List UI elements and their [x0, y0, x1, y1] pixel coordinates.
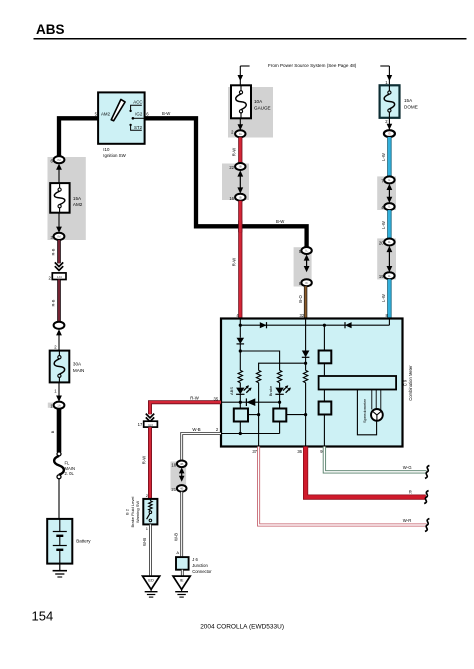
svg-text:2. 0L: 2. 0L — [65, 471, 75, 476]
mating arrows 7-4 — [387, 184, 393, 190]
driver block Q1 — [234, 409, 248, 422]
svg-text:32: 32 — [300, 313, 305, 318]
svg-text:15A: 15A — [73, 196, 82, 201]
svg-text:GAUGE: GAUGE — [254, 105, 271, 110]
meter pin9 column — [323, 325, 325, 446]
wire R-W crossing over B-W — [238, 221, 242, 233]
junction connector J6 — [176, 557, 189, 570]
connector IB pin 22 — [235, 163, 245, 170]
connector IB pin 16 — [235, 194, 245, 201]
svg-text:R-W: R-W — [142, 456, 147, 464]
wire B (ignition AM2 to fuse AM2) — [59, 118, 98, 156]
power feed arrow (GAUGE) — [240, 65, 249, 67]
svg-text:R-W: R-W — [232, 148, 237, 156]
mating arrows 5-8 — [304, 254, 310, 260]
svg-text:4B: 4B — [180, 462, 184, 466]
connector shading 7/4 — [377, 176, 396, 210]
svg-text:W-G: W-G — [403, 465, 412, 470]
svg-text:R-W: R-W — [190, 396, 200, 401]
ground IE — [173, 576, 190, 589]
svg-text:From Power Source System (See: From Power Source System (See Page 48) — [268, 63, 357, 68]
meter top rail — [240, 324, 389, 326]
combination meter C9 box — [221, 319, 403, 447]
svg-text:ABS: ABS — [229, 387, 234, 395]
wire fuse GAUGE to connector — [239, 118, 241, 130]
svg-text:10A: 10A — [254, 99, 263, 104]
svg-text:1J4: 1J4 — [57, 275, 62, 279]
svg-text:Speedometer: Speedometer — [362, 398, 367, 423]
svg-text:IB: IB — [239, 165, 242, 169]
svg-text:37: 37 — [252, 449, 257, 454]
svg-text:AM2: AM2 — [101, 111, 111, 116]
svg-text:DOME: DOME — [404, 104, 418, 109]
fuse F 30A MAIN — [50, 351, 70, 383]
svg-text:W-B: W-B — [142, 538, 147, 546]
connector 4B pin 21 — [177, 485, 187, 492]
svg-text:L-W: L-W — [381, 294, 386, 302]
ignition switch wiper — [111, 99, 125, 120]
svg-text:Ignition SW: Ignition SW — [103, 153, 126, 158]
svg-text:L-W: L-W — [381, 153, 386, 161]
svg-text:4B: 4B — [180, 487, 184, 491]
svg-text:B 2: B 2 — [124, 508, 129, 515]
connector IM pin 6 — [54, 156, 65, 163]
svg-text:30A: 30A — [73, 362, 82, 367]
connector IL pin 5 — [301, 247, 311, 254]
connector IK pin 8 — [301, 279, 311, 286]
wire DOME fuse to connector — [388, 118, 390, 130]
connector shading 22/16 — [222, 164, 249, 201]
svg-text:Connector: Connector — [192, 569, 212, 574]
svg-text:Combination Meter: Combination Meter — [408, 365, 413, 401]
svg-text:1A: 1A — [57, 403, 61, 407]
wire R-W connector to switch — [148, 427, 152, 499]
svg-text:18: 18 — [171, 462, 176, 467]
wire R-W meter pin35 to brake switch — [150, 402, 221, 414]
svg-text:MAIN: MAIN — [65, 466, 75, 471]
terminal IG2 — [132, 117, 135, 120]
wire W-B 21 to junction connector — [180, 492, 183, 557]
LED Brake — [279, 383, 281, 388]
speedometer gauge symbol — [371, 409, 383, 421]
connector 4B pin 18 — [177, 461, 187, 468]
wire B-O connector 8 to meter pin 32 — [304, 286, 307, 318]
wire R-W 16 to meter pin 4 — [238, 201, 242, 319]
svg-text:IG: IG — [239, 132, 242, 136]
svg-text:R-B: R-B — [51, 299, 56, 306]
svg-text:R-B: R-B — [51, 248, 56, 255]
power feed arrow (DOME) — [380, 65, 389, 67]
wire B-W (ignition IG2 to connector 5) — [145, 118, 307, 247]
meter rail y363 — [259, 363, 306, 370]
header rule — [34, 38, 467, 40]
connector IL pin 7 — [384, 176, 394, 183]
svg-text:AM2: AM2 — [73, 202, 83, 207]
mating arrow into IM6 — [56, 164, 62, 170]
break symbol W-G — [425, 465, 429, 478]
block B1 — [319, 351, 332, 364]
meter pin35 line with diode D4 — [221, 401, 280, 403]
svg-text:IG2: IG2 — [135, 112, 143, 117]
wire L-W 4 to 20 — [387, 210, 391, 239]
break symbol R — [424, 491, 428, 504]
wire L-W to connector 7 — [387, 137, 391, 177]
wire L-W 19 to meter pin 8 — [387, 279, 391, 318]
fuse F 15A AM2 — [50, 183, 69, 213]
connector shading 20/19 — [377, 238, 396, 279]
mating arrow into MAIN connector — [56, 329, 62, 335]
svg-text:MAIN: MAIN — [73, 368, 84, 373]
inline connector chevrons (1J4) — [55, 262, 63, 266]
svg-text:Battery: Battery — [76, 539, 91, 544]
wire MAIN fuse to 1A connector — [58, 382, 60, 398]
speedometer feed lines — [371, 390, 373, 410]
brake fluid level warning switch B2 box — [143, 499, 157, 525]
wire W-B junction to ground — [181, 570, 184, 576]
battery cells — [59, 519, 61, 532]
svg-text:A: A — [176, 550, 179, 555]
svg-text:ABS: ABS — [36, 22, 65, 37]
meter pin32/36 column — [305, 319, 307, 351]
svg-text:Warning SW: Warning SW — [135, 501, 140, 524]
svg-text:R-W: R-W — [232, 258, 237, 266]
meter bottom rail — [221, 433, 280, 435]
svg-text:B-O: B-O — [298, 295, 303, 303]
svg-text:B-W: B-W — [162, 111, 171, 116]
wire W-B switch to ground — [149, 524, 152, 576]
svg-text:15A: 15A — [404, 98, 413, 103]
speedometer plate — [319, 376, 397, 390]
svg-text:ED: ED — [148, 578, 154, 583]
switch internals — [149, 499, 151, 501]
meter pin4 column — [239, 319, 241, 338]
junction block shading (GAUGE) — [228, 87, 273, 138]
wire fuse AM2 to IM3 — [58, 213, 60, 230]
driver block Q2 — [273, 409, 286, 422]
svg-text:4L: 4L — [388, 274, 392, 278]
connector 4L pin 19 — [384, 272, 394, 279]
mating arrows 18-21 — [179, 467, 185, 473]
wire W-G (pin9) — [324, 447, 426, 472]
svg-text:36: 36 — [297, 449, 302, 454]
resistor R2 (Brake) — [277, 370, 281, 382]
svg-text:J 6: J 6 — [192, 557, 198, 562]
battery box — [47, 519, 72, 564]
svg-text:B: B — [50, 430, 55, 433]
svg-text:W-R: W-R — [403, 518, 412, 523]
resistor R1 (ABS) — [238, 370, 242, 382]
wire B 1A to FL MAIN — [57, 409, 62, 452]
fuse F 15A DOME — [380, 85, 400, 118]
svg-text:FL: FL — [65, 461, 71, 466]
wire W-B meter pin2 to connector 18 — [182, 434, 221, 461]
svg-text:16: 16 — [229, 196, 234, 201]
svg-text:154: 154 — [32, 609, 54, 624]
svg-text:I10: I10 — [103, 147, 110, 152]
diode D5 — [302, 351, 310, 358]
connector IG — [235, 130, 245, 137]
battery ground — [59, 564, 61, 571]
svg-text:C 9: C 9 — [403, 379, 408, 386]
inline connector chevrons — [146, 414, 154, 418]
connector 1J4 — [52, 273, 66, 280]
connector IA3 — [144, 421, 158, 427]
ignition switch I10 box — [98, 92, 145, 143]
svg-text:Junction: Junction — [192, 563, 208, 568]
connector I5 — [384, 130, 395, 137]
wire W-R (pin37) — [259, 447, 427, 526]
svg-text:IB: IB — [239, 195, 242, 199]
pin 1 (1A) — [48, 403, 53, 408]
fuse F 10A GAUGE — [231, 85, 251, 118]
connector shading 18/21 — [171, 462, 187, 491]
terminal ACC — [129, 110, 131, 112]
connector shading AM2 fuse — [48, 157, 86, 240]
connector 1A — [54, 402, 65, 409]
svg-text:2004 COROLLA (EWD533U): 2004 COROLLA (EWD533U) — [200, 624, 284, 631]
svg-text:W-B: W-B — [173, 533, 178, 541]
ground ED — [143, 576, 160, 589]
svg-text:IE: IE — [180, 578, 184, 583]
mating arrows 20-19 — [387, 246, 393, 252]
connector IM pin 3 — [54, 233, 65, 240]
wire R-B 1J4 down — [57, 280, 61, 322]
LED ABS — [239, 383, 241, 388]
wire FL MAIN to battery — [58, 479, 60, 519]
Q1 output lead — [248, 414, 259, 416]
svg-text:R: R — [409, 490, 412, 495]
mating arrows 22-16 — [237, 170, 243, 176]
connector IL pin 4 — [384, 203, 394, 210]
svg-text:L-W: L-W — [381, 221, 386, 229]
wire R (pin36) — [306, 447, 426, 498]
wire R-W fuse to 22 — [238, 137, 242, 163]
break symbol W-R — [425, 519, 429, 532]
Q2 output lead — [286, 414, 305, 416]
connector 4L pin 20 — [384, 239, 394, 246]
svg-text:22: 22 — [229, 165, 234, 170]
meter branch rail y351 — [240, 351, 279, 370]
wire R-B IM3 to connector 1J4 — [57, 240, 61, 263]
svg-text:W-B: W-B — [192, 427, 200, 432]
resistor R3 — [256, 370, 260, 382]
resistor R4 — [303, 370, 307, 382]
terminal ST2 — [129, 124, 131, 126]
svg-text:Brake: Brake — [268, 385, 273, 396]
svg-text:ACC: ACC — [133, 100, 142, 105]
speedometer outline — [357, 390, 376, 435]
fusible link FL MAIN 2.0L — [57, 452, 61, 456]
connector shading 5/8 — [294, 247, 312, 286]
svg-text:ST2: ST2 — [134, 125, 143, 130]
svg-text:IK: IK — [305, 281, 308, 285]
connector pin 2 (MAIN) — [54, 322, 65, 329]
block B2 — [319, 402, 332, 415]
diode D3 — [237, 338, 245, 344]
diode D1 on top rail — [260, 322, 267, 328]
svg-text:17: 17 — [138, 422, 143, 427]
svg-text:B-W: B-W — [276, 219, 285, 224]
diode D2 on top rail — [345, 322, 352, 328]
svg-text:IA3: IA3 — [148, 423, 153, 427]
svg-text:4L: 4L — [388, 240, 392, 244]
